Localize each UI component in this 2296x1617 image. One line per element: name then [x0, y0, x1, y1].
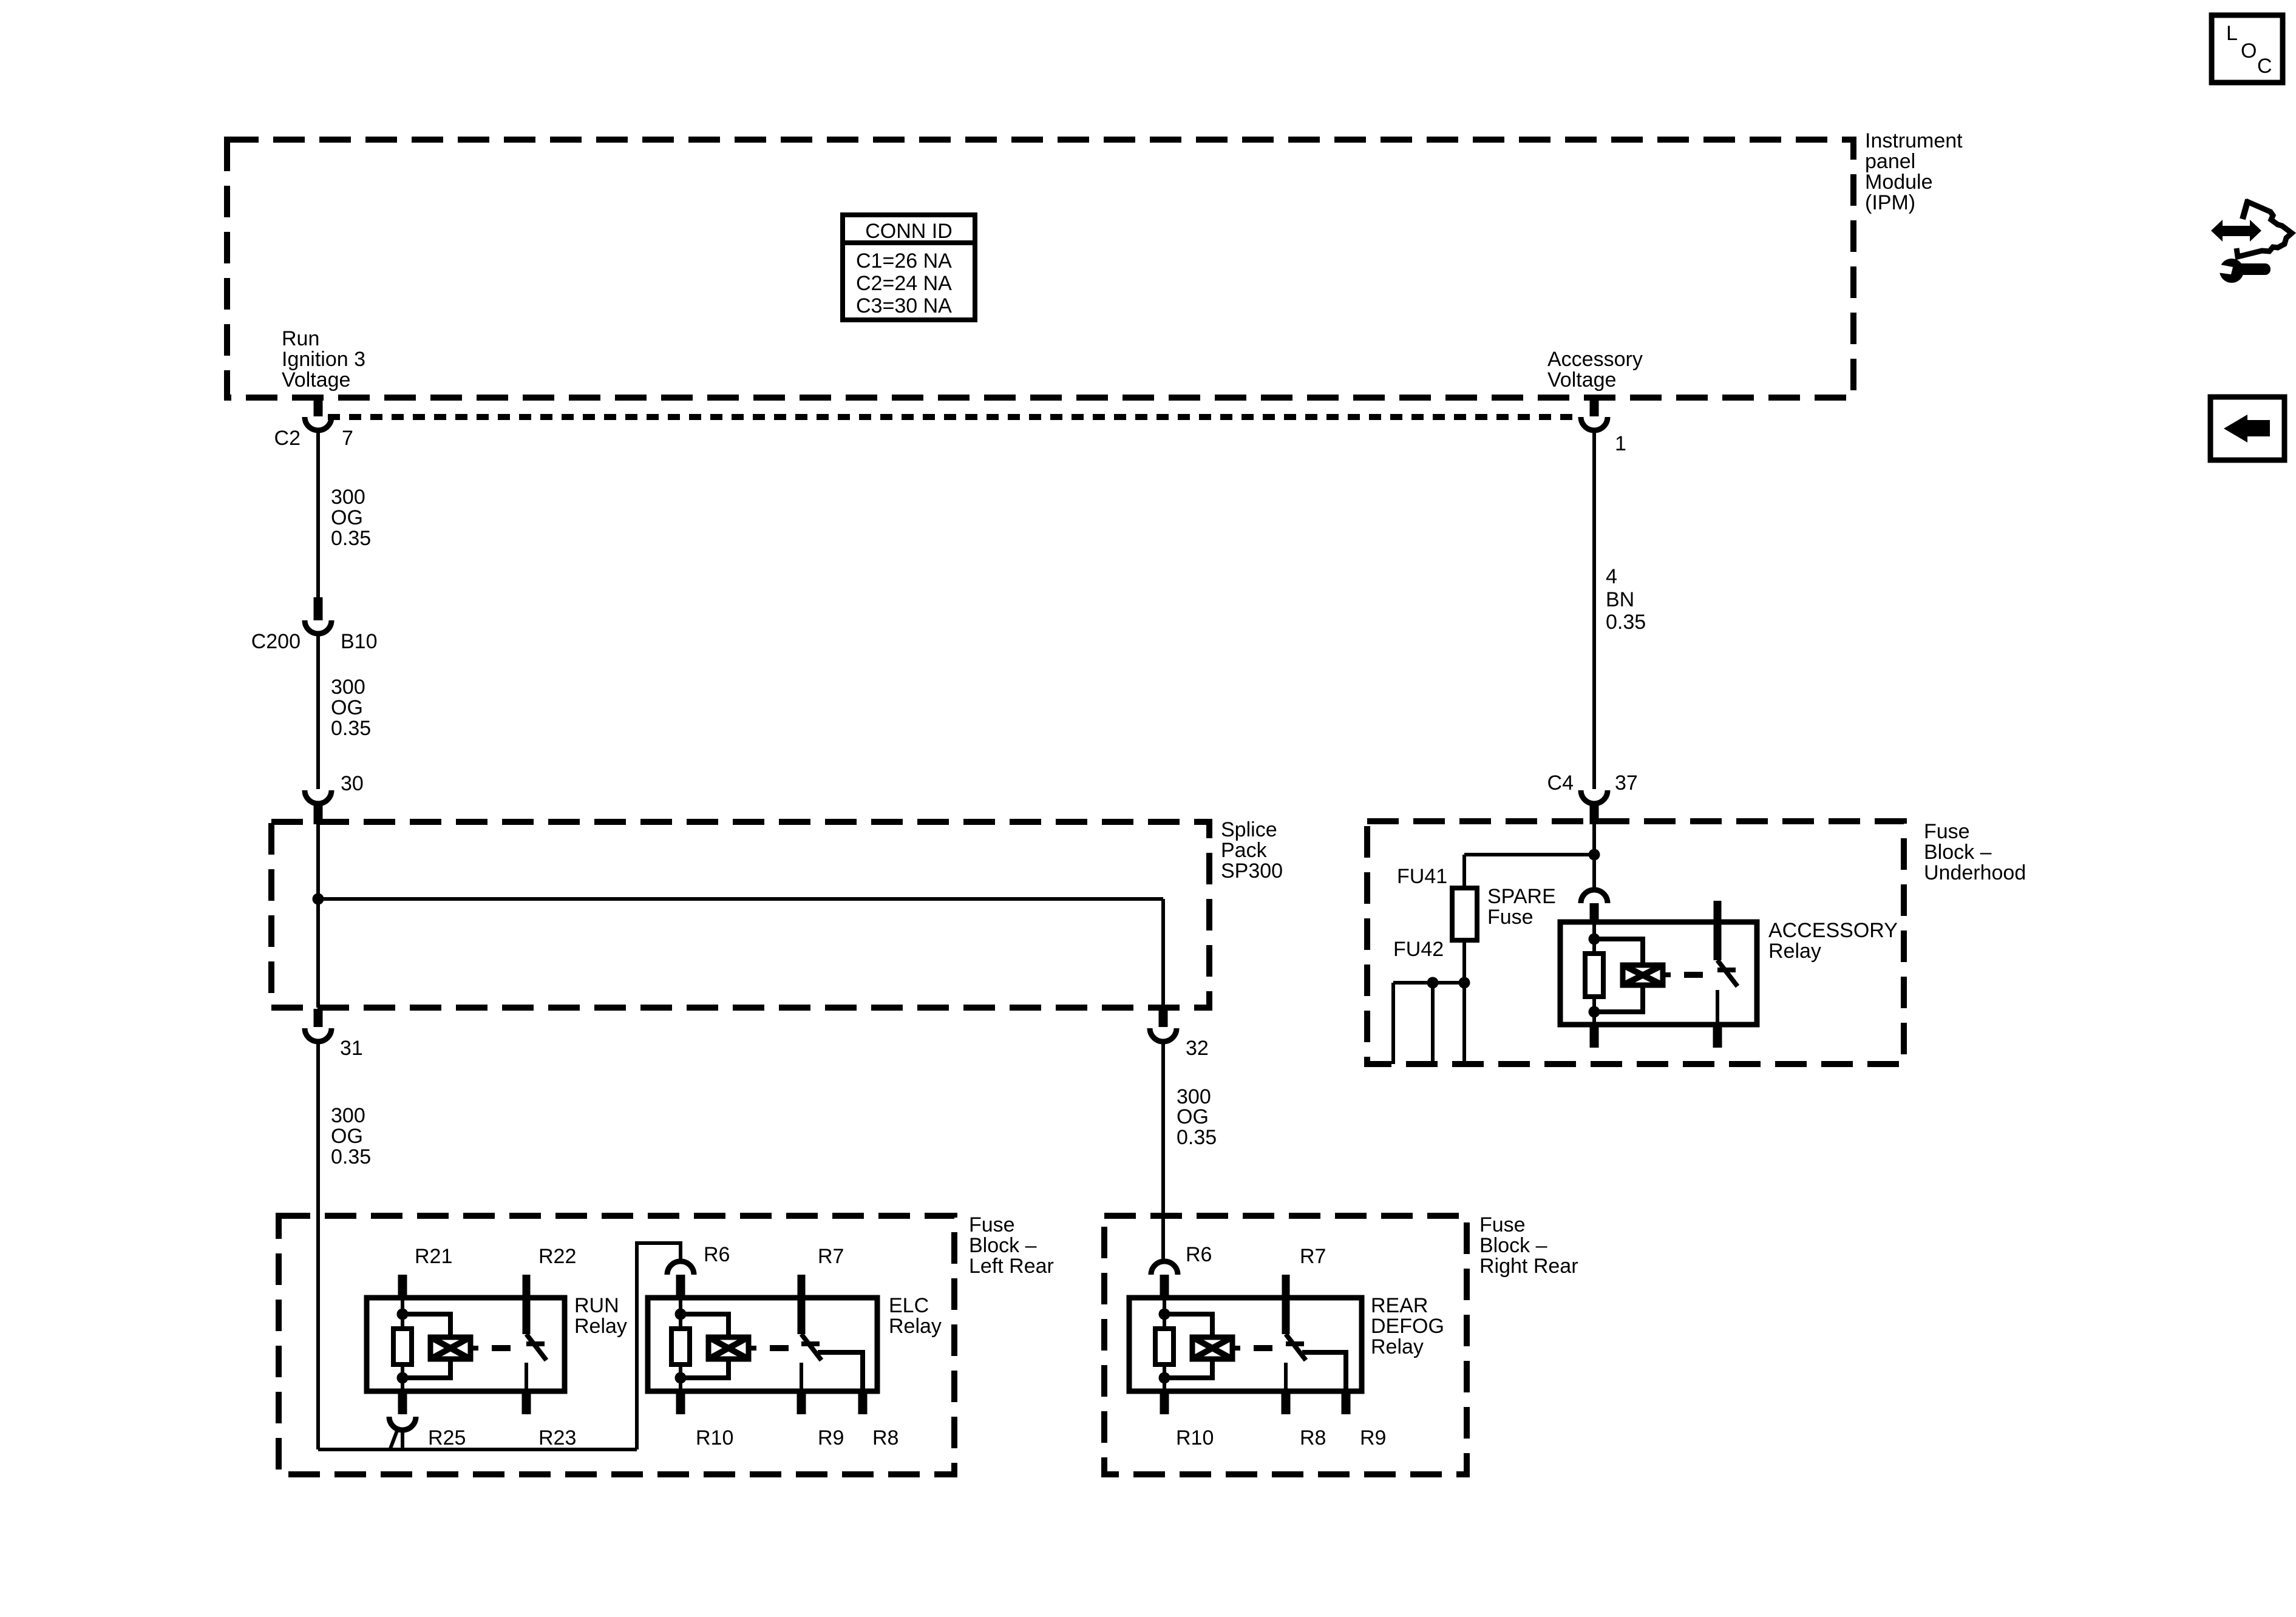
svg-text:ACCESSORY: ACCESSORY	[1768, 919, 1898, 942]
svg-text:Relay: Relay	[574, 1315, 627, 1338]
svg-text:R23: R23	[538, 1426, 576, 1449]
svg-text:panel: panel	[1865, 150, 1915, 173]
svg-text:Left Rear: Left Rear	[969, 1255, 1054, 1278]
svg-text:R25: R25	[428, 1426, 466, 1449]
svg-text:OG: OG	[331, 1125, 363, 1148]
svg-text:C3=30 NA: C3=30 NA	[856, 294, 952, 317]
svg-text:(IPM): (IPM)	[1865, 191, 1915, 214]
svg-text:0.35: 0.35	[331, 527, 371, 550]
svg-text:R9: R9	[1360, 1426, 1386, 1449]
svg-text:37: 37	[1615, 771, 1638, 795]
svg-text:1: 1	[1615, 432, 1626, 455]
svg-text:R10: R10	[696, 1426, 733, 1449]
svg-text:Fuse: Fuse	[1924, 820, 1970, 843]
svg-text:REAR: REAR	[1371, 1294, 1428, 1317]
svg-text:OG: OG	[331, 696, 363, 719]
svg-text:FU42: FU42	[1393, 938, 1444, 961]
svg-text:R6: R6	[704, 1243, 730, 1266]
svg-text:30: 30	[341, 772, 364, 795]
svg-text:Voltage: Voltage	[282, 368, 350, 392]
svg-text:Pack: Pack	[1221, 839, 1268, 862]
svg-text:300: 300	[331, 486, 365, 509]
svg-text:L: L	[2226, 22, 2238, 45]
svg-text:Voltage: Voltage	[1547, 368, 1616, 392]
svg-text:C: C	[2257, 55, 2272, 78]
svg-text:C2: C2	[274, 427, 301, 450]
svg-text:Relay: Relay	[1371, 1335, 1424, 1358]
svg-text:Relay: Relay	[1768, 940, 1821, 963]
svg-text:Right Rear: Right Rear	[1479, 1255, 1578, 1278]
svg-text:Block –: Block –	[1479, 1234, 1547, 1257]
svg-text:O: O	[2241, 39, 2257, 63]
svg-text:SP300: SP300	[1221, 859, 1283, 883]
svg-text:Fuse: Fuse	[1487, 906, 1533, 929]
svg-text:ELC: ELC	[889, 1294, 929, 1317]
svg-text:BN: BN	[1606, 588, 1634, 611]
svg-text:31: 31	[340, 1037, 363, 1060]
svg-text:Instrument: Instrument	[1865, 129, 1963, 152]
svg-text:FU41: FU41	[1397, 865, 1447, 888]
svg-text:R7: R7	[818, 1245, 844, 1268]
svg-text:R8: R8	[872, 1426, 898, 1449]
svg-text:Module: Module	[1865, 171, 1933, 194]
svg-text:R9: R9	[818, 1426, 844, 1449]
svg-text:C4: C4	[1547, 771, 1574, 795]
svg-text:32: 32	[1186, 1037, 1209, 1060]
svg-text:CONN ID: CONN ID	[865, 220, 953, 243]
svg-text:OG: OG	[1177, 1105, 1209, 1128]
svg-text:300: 300	[331, 1104, 365, 1127]
svg-text:OG: OG	[331, 506, 363, 529]
svg-text:DEFOG: DEFOG	[1371, 1315, 1444, 1338]
svg-text:C1=26 NA: C1=26 NA	[856, 249, 952, 273]
svg-text:SPARE: SPARE	[1487, 885, 1556, 908]
svg-text:Block –: Block –	[1924, 841, 1992, 864]
svg-text:0.35: 0.35	[331, 717, 371, 740]
svg-text:R21: R21	[415, 1245, 452, 1268]
svg-text:0.35: 0.35	[331, 1145, 371, 1168]
svg-text:Relay: Relay	[889, 1315, 942, 1338]
svg-text:R6: R6	[1186, 1243, 1212, 1266]
svg-text:R22: R22	[538, 1245, 576, 1268]
svg-text:RUN: RUN	[574, 1294, 619, 1317]
svg-text:C2=24 NA: C2=24 NA	[856, 272, 952, 295]
svg-text:300: 300	[331, 676, 365, 699]
svg-text:B10: B10	[341, 630, 378, 653]
svg-text:Accessory: Accessory	[1547, 348, 1643, 371]
svg-text:7: 7	[342, 427, 353, 450]
svg-text:R10: R10	[1176, 1426, 1214, 1449]
svg-text:4: 4	[1606, 565, 1617, 588]
svg-text:Fuse: Fuse	[969, 1213, 1015, 1236]
svg-text:Block –: Block –	[969, 1234, 1037, 1257]
svg-text:Underhood: Underhood	[1924, 861, 2026, 884]
svg-text:R7: R7	[1300, 1245, 1326, 1268]
svg-text:0.35: 0.35	[1606, 611, 1646, 634]
svg-text:Run: Run	[282, 327, 319, 350]
svg-text:Fuse: Fuse	[1479, 1213, 1526, 1236]
svg-text:Splice: Splice	[1221, 818, 1277, 841]
svg-text:Ignition 3: Ignition 3	[282, 348, 365, 371]
svg-text:R8: R8	[1300, 1426, 1326, 1449]
svg-text:0.35: 0.35	[1177, 1126, 1217, 1149]
svg-text:C200: C200	[251, 630, 301, 653]
